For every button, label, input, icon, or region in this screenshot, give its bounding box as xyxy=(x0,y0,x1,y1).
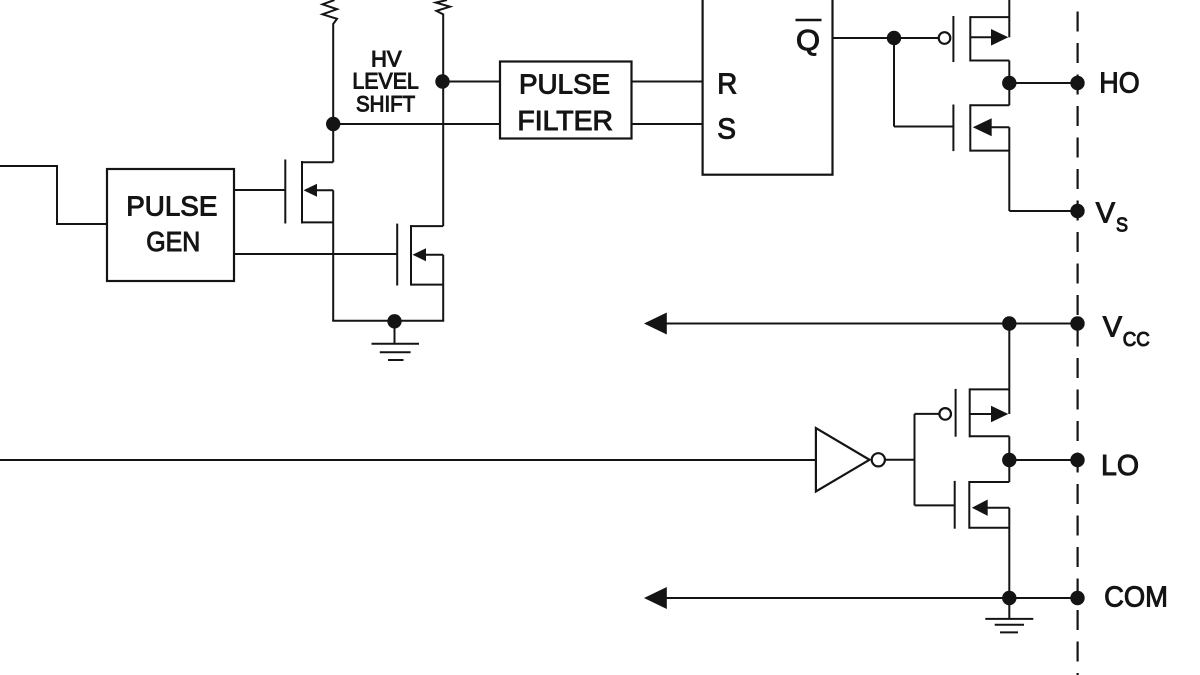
svg-text:COM: COM xyxy=(1104,582,1168,614)
svg-text:PULSE: PULSE xyxy=(519,69,610,100)
svg-text:FILTER: FILTER xyxy=(517,105,613,136)
svg-text:LEVEL: LEVEL xyxy=(352,69,418,94)
svg-text:LO: LO xyxy=(1101,450,1139,482)
svg-text:SHIFT: SHIFT xyxy=(356,92,415,117)
svg-text:V: V xyxy=(1103,312,1123,344)
svg-text:PULSE: PULSE xyxy=(126,190,217,221)
svg-text:S: S xyxy=(717,114,736,146)
svg-text:HO: HO xyxy=(1099,67,1139,99)
svg-text:CC: CC xyxy=(1123,329,1150,351)
svg-text:S: S xyxy=(1116,214,1128,236)
svg-text:GEN: GEN xyxy=(146,226,200,257)
svg-text:R: R xyxy=(717,68,737,100)
svg-text:Q: Q xyxy=(796,25,820,57)
svg-text:V: V xyxy=(1096,197,1116,229)
